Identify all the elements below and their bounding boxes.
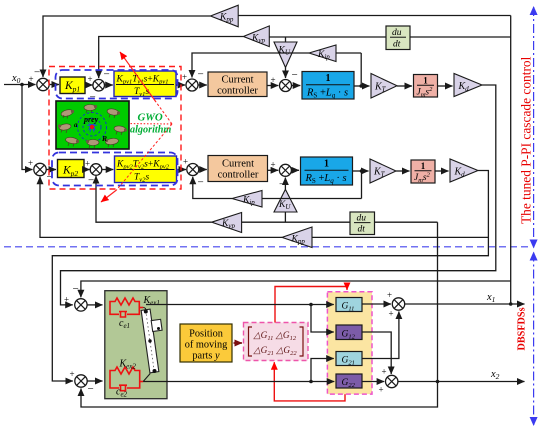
wire x1 position feedback riser (510, 16, 512, 305)
svg-text:+: + (389, 309, 394, 319)
wire KU1 stub (285, 37, 287, 42)
wire Jm1 to Kd1 (438, 85, 453, 87)
gain KT1 (371, 74, 397, 99)
wire G12 to B4 (362, 332, 391, 374)
wire riser to du/dt2 (375, 221, 438, 223)
gain Kpp2 (282, 227, 312, 248)
node current tap 2 (360, 169, 364, 173)
red wire G box bottom to matrix (274, 362, 345, 401)
wire J8 to plant 2 (292, 169, 299, 171)
svg-text:algorithm: algorithm (130, 125, 171, 136)
wire KU2 to J8 (284, 178, 286, 190)
svg-text:1: 1 (421, 161, 426, 171)
node branch dot x0 (20, 83, 24, 87)
annotation arrow to PI2 (101, 190, 117, 202)
gain Kd2 (450, 159, 478, 182)
summing junction J5 (28, 158, 53, 183)
summing junction J2 (88, 69, 110, 104)
wire Kpp2 to J5 (40, 177, 282, 238)
svg-text:+: + (64, 295, 69, 305)
svg-text:−: − (279, 179, 285, 191)
svg-text:parts y: parts y (192, 351, 220, 362)
wire tap to Kpp2 (312, 236, 488, 238)
block deltaG matrix (244, 323, 309, 361)
wire tap to G12 (311, 305, 334, 333)
wire G22 to B4 (362, 381, 384, 383)
spring-damper circuit 1 (110, 298, 143, 317)
wire B2 to spring block (87, 380, 102, 382)
svg-text:+: + (271, 160, 276, 170)
spring-damper circuit 2 (110, 367, 143, 391)
wire CC1 to J4 (267, 85, 278, 87)
wire plant1 to KT1 (354, 85, 370, 87)
gain Kip1 (309, 45, 336, 62)
block du/dt 2 (350, 212, 375, 235)
GWO wolves box (56, 101, 129, 149)
summing junction J7 (183, 157, 204, 189)
block G12 (336, 325, 362, 340)
svg-text:+: + (271, 75, 276, 85)
svg-text:+: + (85, 159, 90, 169)
gain Kip2 (232, 191, 262, 208)
wire B1 to spring block (87, 304, 102, 306)
gain Kpp1 (211, 5, 239, 27)
wire circuit1 to G11 (146, 304, 334, 306)
wire PI2 to J7 (177, 169, 187, 171)
wire Kpp1 feedback top line right (238, 15, 511, 17)
svg-text:+: + (29, 74, 34, 84)
summing junction J8 (271, 160, 292, 191)
wire J7 to current controller 2 (199, 169, 207, 171)
wire KT2 to Jm2 (396, 170, 410, 172)
block Kp2 (58, 160, 85, 178)
block PI2 transfer function (115, 156, 177, 184)
wire J3 to current controller 1 (198, 84, 207, 86)
block position of moving parts (180, 324, 232, 362)
wire Kvp1 to J2 (99, 37, 244, 79)
svg-text:+: + (183, 157, 188, 167)
wire tap to G21 (311, 359, 334, 382)
wire Kpp1 to J1 (43, 16, 211, 77)
wire PI1 to J3 (176, 84, 185, 86)
wire Kip1 to J3 (192, 53, 309, 78)
block Kp1 (60, 77, 85, 94)
wire du/dt1 to Kvp1 (269, 36, 386, 38)
annotation dotted leader lower (117, 124, 173, 190)
side dash-dot span line (top section) (533, 7, 535, 248)
summing junction J4 (271, 69, 298, 92)
block current controller 1 (208, 72, 267, 97)
wire x2 feedback into B2 (81, 382, 438, 408)
summing junction J1 (29, 67, 50, 91)
gain KU1 (274, 42, 297, 68)
svg-text:1: 1 (423, 76, 428, 86)
svg-text:dt: dt (393, 40, 401, 50)
gain Kvp2 (212, 213, 242, 233)
summing junction J3 (182, 69, 204, 92)
svg-text:The tuned P-PI cascade control: The tuned P-PI cascade control (519, 56, 534, 224)
svg-text:Position: Position (189, 329, 223, 340)
red dashed tuning box (49, 67, 181, 190)
wire J1 to Kp1 (49, 84, 59, 86)
summing junction B3 (387, 290, 405, 319)
svg-text:1: 1 (324, 159, 329, 170)
wolf heads and legs (58, 105, 127, 148)
svg-text:+: + (182, 72, 187, 82)
svg-text:controller: controller (218, 170, 259, 181)
wire du/dt2 to Kvp2 (242, 221, 350, 223)
wire Jm2 to Kd2 (435, 170, 449, 172)
node tap G12 (309, 303, 313, 307)
pivot dots (144, 310, 148, 314)
node tap G21 (309, 380, 313, 384)
slider block (151, 319, 162, 331)
wire Kvp2 to J6 (96, 176, 212, 222)
svg-text:+: + (70, 369, 75, 379)
wire beam link 2 (143, 374, 150, 382)
wire J5 to Kp2 (46, 169, 56, 171)
node x1 tap (509, 302, 513, 306)
gain Kvp1 (243, 26, 269, 47)
svg-text:du: du (392, 28, 402, 38)
wire Kp2 to J6 (84, 169, 90, 171)
svg-text:RS +Lq · s: RS +Lq · s (306, 88, 348, 100)
annotation arrow to PI1 (120, 52, 156, 102)
wire B4 to x2 output (398, 381, 525, 383)
wire x0 branch to row2 (22, 85, 33, 170)
svg-text:−: − (34, 67, 40, 79)
svg-text:+: + (379, 385, 384, 395)
wire current tap riser 2 (361, 171, 363, 199)
block electrical plant 2 (301, 157, 353, 185)
wire KU1 to J4 (285, 68, 287, 79)
summing junction J6 (85, 159, 102, 187)
wire circuit2 to G22 (143, 381, 334, 383)
svg-text:Current: Current (221, 75, 253, 86)
wire J2 to PI1 (105, 84, 113, 86)
svg-text:−: − (198, 177, 204, 189)
wire Kp1 to J2 (85, 84, 93, 86)
node current tap 1 (359, 84, 363, 88)
node x2 tap (436, 380, 440, 384)
svg-text:−: − (73, 283, 79, 295)
wire velocity feedback line 1 right (410, 36, 511, 38)
wire Kd1 force to bottom section (61, 85, 496, 305)
block mechanical plant 2 (411, 160, 435, 184)
wire x0 input (4, 84, 36, 86)
wire J4 to plant 1 (292, 85, 301, 87)
svg-text:+: + (382, 367, 387, 377)
wire G21 to B3 (362, 312, 399, 359)
summing junction B4 (379, 367, 398, 395)
gain KT2 (370, 159, 396, 183)
wire x2 velocity feedback riser (437, 222, 439, 381)
wire KT1 to Jm1 (397, 85, 412, 87)
wire B3 to x1 output (405, 303, 525, 305)
svg-text:+: + (88, 74, 93, 84)
wire beam link 1 (143, 308, 146, 312)
block G22 (336, 374, 362, 389)
block current controller 2 (208, 156, 268, 182)
summing junction B1 (64, 283, 87, 311)
svg-text:1: 1 (326, 73, 331, 84)
red wire matrix to G box top (275, 287, 347, 323)
block mechanical plant 1 (414, 75, 438, 99)
block G11 (336, 298, 362, 313)
svg-text:R: R (101, 134, 107, 143)
wire current tap to Kip2 (262, 198, 362, 200)
wire plant2 to KT2 (353, 170, 369, 172)
blue dashed box row1 (56, 70, 178, 99)
block du/dt 1 (386, 26, 410, 50)
block electrical plant 1 (302, 72, 354, 100)
gain KU2 (274, 189, 297, 212)
svg-text:+: + (387, 290, 392, 300)
block G21 (336, 352, 362, 367)
wire Kip2 to J7 (193, 177, 232, 199)
svg-text:Current: Current (222, 159, 254, 170)
svg-text:controller: controller (217, 86, 258, 97)
svg-text:prey: prey (83, 115, 99, 124)
block mechanical coupling box (105, 291, 167, 399)
block PI1 transfer function (114, 71, 176, 98)
svg-text:−: − (198, 69, 204, 81)
wolf figures (59, 105, 127, 146)
svg-text:du: du (357, 214, 367, 224)
svg-text:GWO: GWO (138, 112, 163, 124)
side dash-dot span line (bottom section) (533, 253, 535, 426)
wire current tap to Kip1 (336, 52, 361, 54)
section separator dashed line (4, 246, 529, 248)
wire Kd2 force to bottom section (52, 171, 488, 382)
svg-text:−: − (88, 383, 94, 395)
lever beam (141, 309, 159, 373)
wire CC2 to J8 (268, 169, 279, 171)
wire x1 feedback into B1 (81, 281, 511, 297)
summing junction B2 (70, 369, 94, 395)
annotation dotted leader horizontal (131, 123, 173, 125)
wire KU2 stub (284, 212, 286, 222)
svg-text:RS +Lq · s: RS +Lq · s (305, 173, 347, 185)
wire G11 to B3 (362, 303, 391, 305)
wire J6 to PI2 (102, 169, 113, 171)
annotation dotted leader upper (156, 102, 172, 124)
svg-text:−: − (292, 69, 298, 81)
svg-text:a: a (74, 121, 78, 129)
wire current tap riser 1 (360, 53, 362, 86)
block G container dashed box (327, 292, 372, 394)
svg-text:DBSFDSs: DBSFDSs (517, 307, 528, 350)
svg-text:+: + (28, 158, 33, 168)
wire position to deltaG matrix (234, 342, 243, 344)
gain Kd1 (454, 74, 482, 97)
svg-text:of moving: of moving (185, 340, 228, 351)
blue dashed box row2 (52, 153, 178, 186)
svg-text:dt: dt (358, 225, 366, 235)
